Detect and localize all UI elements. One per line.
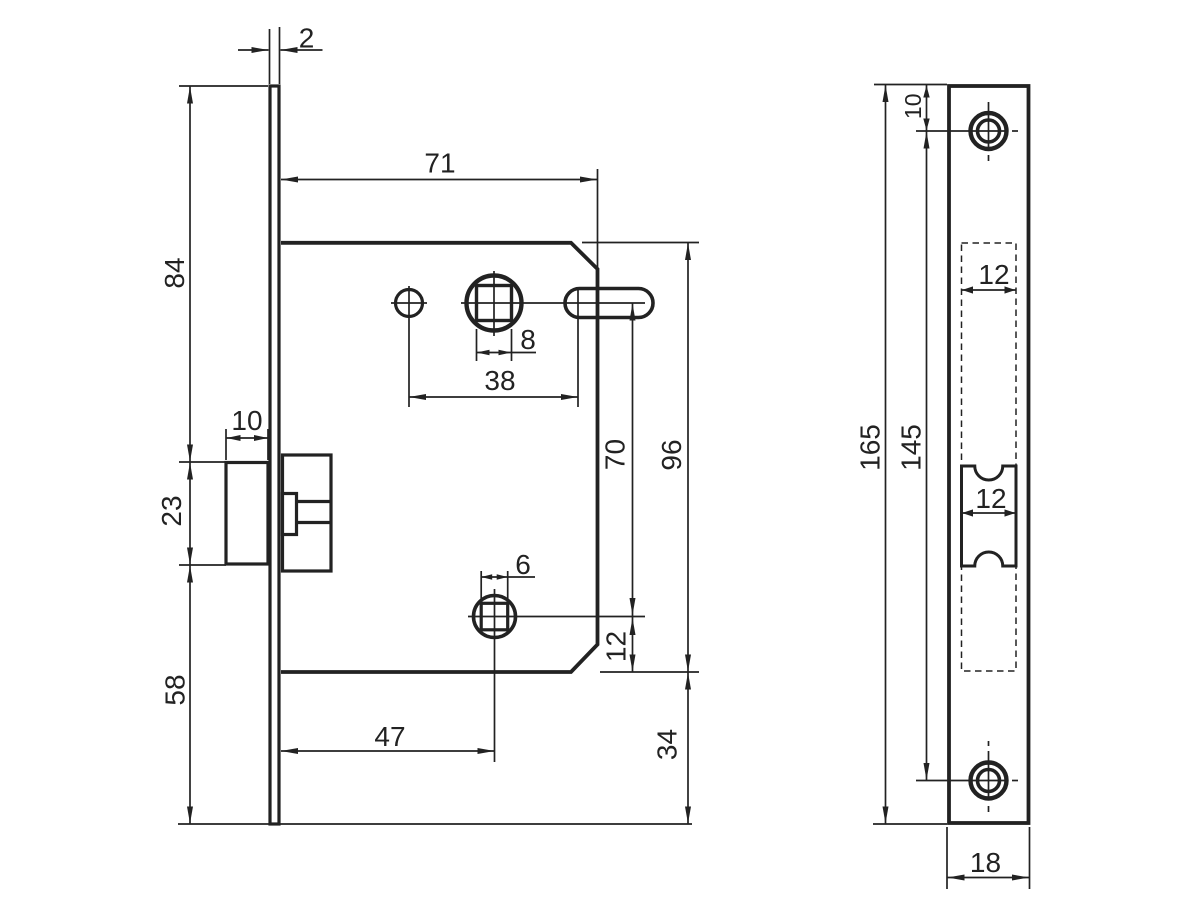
svg-text:10: 10 xyxy=(231,405,262,436)
svg-text:6: 6 xyxy=(515,549,531,580)
svg-text:34: 34 xyxy=(652,729,683,760)
svg-text:10: 10 xyxy=(900,94,926,120)
svg-text:47: 47 xyxy=(374,721,405,752)
svg-text:84: 84 xyxy=(159,257,190,288)
svg-text:12: 12 xyxy=(978,259,1009,290)
svg-text:96: 96 xyxy=(656,439,687,470)
svg-text:8: 8 xyxy=(520,324,536,355)
svg-text:165: 165 xyxy=(855,424,886,471)
svg-text:58: 58 xyxy=(160,674,191,705)
svg-text:71: 71 xyxy=(424,148,455,179)
svg-text:2: 2 xyxy=(299,23,315,54)
svg-text:70: 70 xyxy=(600,439,631,470)
svg-text:23: 23 xyxy=(156,495,187,526)
svg-text:38: 38 xyxy=(484,365,515,396)
svg-text:18: 18 xyxy=(970,847,1001,878)
svg-text:145: 145 xyxy=(896,424,927,471)
svg-text:12: 12 xyxy=(975,483,1006,514)
svg-text:12: 12 xyxy=(601,631,632,662)
